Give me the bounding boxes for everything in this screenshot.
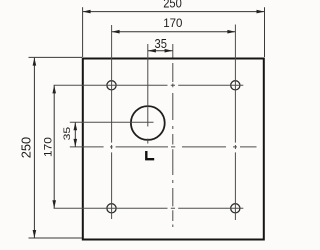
dimension line 35 top: [148, 50, 173, 52]
plate outline: [83, 59, 264, 240]
svg-text:35: 35: [62, 127, 73, 141]
centerline top hole row: [54, 84, 244, 86]
centerline plate horizontal: [70, 146, 257, 148]
dimension line 250 left: [33, 58, 35, 238]
dimension line 250 top: [83, 11, 265, 13]
centerline large hole vertical: [147, 44, 149, 127]
centerline large hole vertical lower dash: [147, 139, 149, 144]
svg-text:170: 170: [163, 16, 182, 30]
dimension line 170 top: [112, 31, 236, 33]
dimension line 170 left: [53, 85, 55, 208]
centerline plate vertical: [172, 44, 174, 227]
hole top-right: [231, 81, 240, 90]
centerline large hole horizontal: [70, 121, 154, 123]
extension line top-left horizontal: [29, 56, 83, 58]
hole bottom-right: [231, 204, 240, 213]
dimension line 35 left: [74, 122, 76, 147]
svg-text:170: 170: [42, 137, 54, 157]
hole top-left: [107, 81, 116, 90]
centerline right hole column: [234, 25, 236, 221]
svg-text:35: 35: [155, 36, 167, 51]
extension line above right edge: [264, 7, 266, 57]
extension line bottom horizontal: [29, 237, 83, 239]
extension line above left edge: [82, 7, 84, 57]
svg-text:250: 250: [19, 137, 34, 158]
hole bottom-left: [107, 204, 116, 213]
large hole: [131, 106, 165, 140]
L mark: [146, 151, 154, 159]
centerline left hole column: [111, 25, 113, 219]
svg-text:250: 250: [163, 0, 182, 11]
centerline bottom hole row: [54, 207, 244, 209]
